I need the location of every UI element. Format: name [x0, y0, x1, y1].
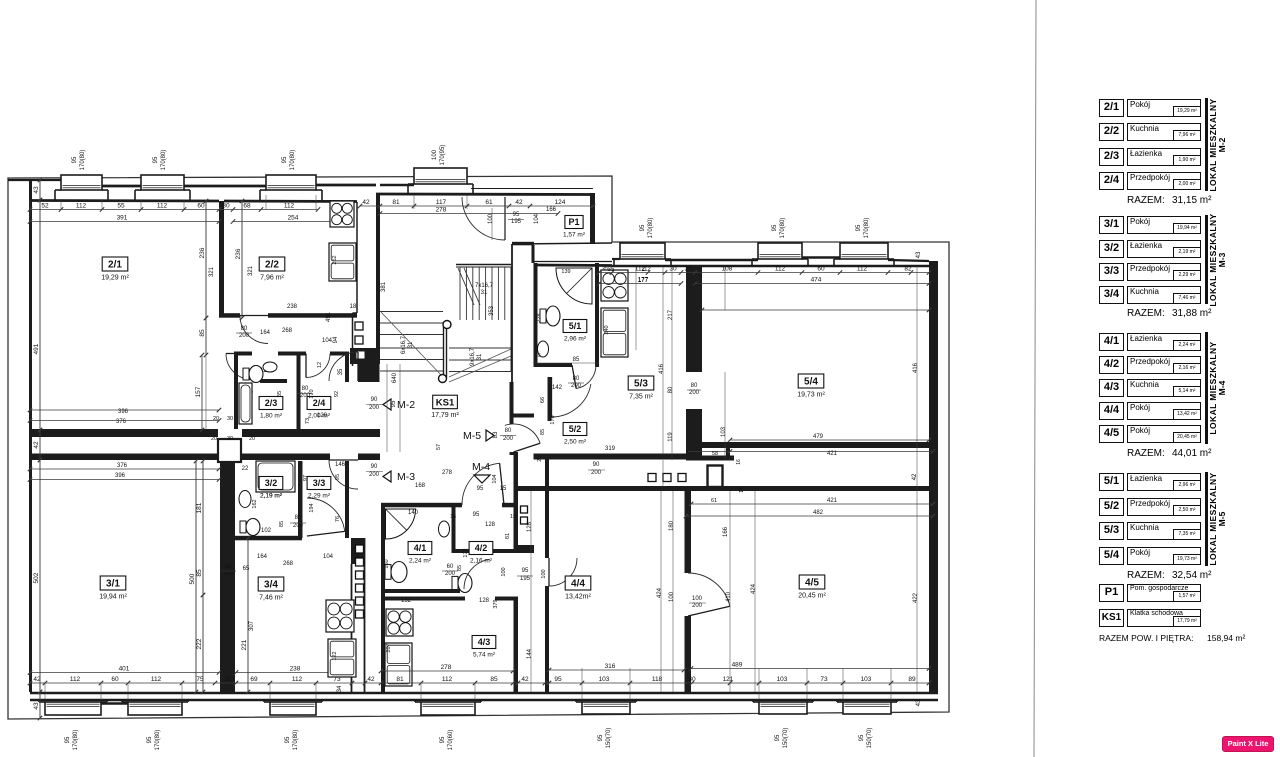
svg-text:58: 58 [712, 451, 718, 457]
extension lines 2/1 [60, 200, 62, 210]
svg-text:4/4: 4/4 [571, 579, 585, 590]
door M-3 entrance gap [330, 453, 358, 462]
svg-text:69: 69 [250, 676, 258, 683]
window 100/170(95) top-4 (staircase) [408, 168, 473, 193]
dim chain [597, 266, 931, 275]
svg-text:43: 43 [33, 186, 40, 194]
wall: bottom of kitchen 2/2 with door gap [219, 313, 240, 318]
svg-text:1,57 m²: 1,57 m² [563, 232, 586, 239]
svg-text:150(70): 150(70) [867, 728, 873, 749]
svg-text:200: 200 [689, 390, 700, 396]
chimney box at divider [218, 439, 241, 462]
dim chain [196, 593, 205, 694]
staircase lower flight right [449, 267, 511, 382]
wall: top exterior (left block) outer face [8, 179, 61, 181]
svg-text:120: 120 [317, 413, 328, 419]
door to bath 2/3 [226, 354, 252, 380]
svg-text:422: 422 [913, 592, 919, 603]
svg-text:424: 424 [751, 583, 757, 594]
svg-text:236: 236 [235, 248, 242, 259]
svg-text:60: 60 [447, 564, 454, 570]
svg-text:2,50 m²: 2,50 m² [564, 439, 587, 446]
svg-text:102: 102 [261, 528, 272, 534]
svg-text:104: 104 [492, 474, 498, 483]
svg-text:396: 396 [115, 473, 126, 479]
svg-text:43: 43 [33, 702, 40, 710]
svg-text:200: 200 [571, 383, 582, 389]
wall: top exterior right block inner [612, 265, 938, 268]
dims inside 5/4 [702, 309, 929, 311]
legend row 3/3 Przedpokój [1099, 263, 1124, 281]
dim chain [379, 664, 515, 673]
svg-text:112: 112 [76, 203, 87, 210]
svg-text:42: 42 [367, 676, 375, 683]
svg-text:95: 95 [554, 676, 562, 683]
annotation M-3 door [383, 471, 391, 482]
svg-text:20: 20 [213, 416, 219, 422]
svg-text:22: 22 [242, 466, 249, 472]
svg-text:95: 95 [598, 734, 604, 741]
svg-text:170(80): 170(80) [290, 150, 296, 171]
wall right of bath 5/1 [595, 263, 599, 367]
svg-text:45: 45 [535, 353, 541, 359]
wall bottom of bath 5/1 with door [534, 363, 573, 367]
svg-text:M-2: M-2 [397, 399, 415, 411]
svg-text:162: 162 [252, 499, 258, 508]
svg-text:170(80): 170(80) [73, 730, 79, 751]
room label 3/4 [258, 577, 284, 602]
room label 3/3 [307, 477, 331, 500]
svg-text:19,29 m²: 19,29 m² [101, 275, 129, 282]
svg-text:95: 95 [772, 224, 778, 231]
dim chain [33, 690, 42, 720]
svg-text:80: 80 [505, 428, 512, 434]
svg-text:103: 103 [777, 676, 788, 683]
svg-text:7,96 m²: 7,96 m² [260, 275, 284, 282]
svg-text:150(70): 150(70) [783, 728, 789, 749]
svg-text:164: 164 [257, 554, 268, 560]
legend total line [1099, 633, 1193, 643]
bath 5/1 sink [538, 341, 549, 357]
room label 4/3 [472, 636, 496, 659]
bath 3/2 toilet [240, 521, 246, 533]
svg-text:61: 61 [711, 498, 717, 504]
window 95/170(80) top-1 [55, 175, 108, 200]
svg-text:170(95): 170(95) [440, 145, 446, 166]
svg-text:177: 177 [638, 278, 649, 284]
svg-text:9x16,7: 9x16,7 [470, 347, 476, 366]
svg-text:55: 55 [117, 203, 125, 210]
svg-text:35: 35 [608, 267, 615, 273]
svg-text:85: 85 [196, 569, 203, 577]
svg-text:479: 479 [813, 434, 824, 440]
svg-text:80: 80 [225, 564, 232, 570]
svg-text:100: 100 [541, 569, 547, 578]
kitchen 2/2 sink unit [329, 243, 356, 281]
svg-text:95: 95 [285, 736, 291, 743]
svg-text:76: 76 [335, 516, 341, 522]
svg-text:207: 207 [386, 643, 392, 652]
svg-text:80: 80 [295, 515, 302, 521]
svg-text:170(60): 170(60) [448, 730, 454, 751]
svg-text:489: 489 [732, 662, 743, 669]
wall left of bath 2/3 [234, 353, 238, 431]
svg-text:122: 122 [332, 651, 338, 660]
wall right of 3/3 (hall nook) [345, 461, 349, 538]
legend row 5/4 Pokój [1099, 547, 1124, 565]
window 95/170(80) top-2 [135, 175, 190, 200]
svg-text:112: 112 [292, 676, 303, 683]
svg-text:4/5: 4/5 [805, 578, 819, 589]
svg-text:80: 80 [241, 326, 248, 332]
dim chain [28, 676, 931, 685]
room label 5/2 [563, 423, 587, 446]
svg-text:5,74 m²: 5,74 m² [473, 652, 496, 659]
dim chain [358, 199, 595, 208]
svg-text:81: 81 [505, 533, 511, 539]
vent squares shaft B [356, 545, 364, 553]
dim chain [33, 198, 42, 432]
svg-text:421: 421 [827, 451, 838, 457]
wall: top exterior right block outer [612, 258, 620, 260]
svg-text:3/4: 3/4 [264, 580, 278, 591]
extension lines bottom right [581, 668, 583, 683]
svg-text:4/1: 4/1 [414, 543, 427, 553]
svg-text:2,24 m²: 2,24 m² [409, 558, 432, 565]
wall right of kitchen 4/3 / corridor [514, 423, 519, 425]
bath 4/1 sink [439, 521, 450, 537]
kitchen 3/4 sink unit [328, 639, 356, 677]
svg-text:491: 491 [326, 311, 332, 322]
svg-text:240: 240 [604, 325, 610, 334]
svg-text:316: 316 [605, 663, 616, 670]
svg-text:2,19 m²: 2,19 m² [260, 493, 283, 500]
svg-text:2,29 m²: 2,29 m² [308, 493, 331, 500]
legend row 4/5 Pokój [1099, 425, 1124, 443]
wall: bottom of bath 4/1 [381, 589, 460, 593]
room label 4/5 [798, 575, 826, 600]
room label 2/1 [101, 257, 129, 282]
wall: top of M-4 wing [518, 486, 933, 491]
svg-text:95: 95 [440, 736, 446, 743]
shaft wall right of 2/2 [356, 202, 358, 313]
svg-text:73: 73 [305, 418, 311, 424]
kitchen 3/4 stove [326, 600, 354, 632]
dim chain [241, 536, 250, 694]
svg-text:252: 252 [332, 255, 338, 264]
wall between 3/2 and 3/3 [298, 461, 303, 538]
svg-text:7,46 m²: 7,46 m² [259, 595, 283, 602]
room label P1 [563, 216, 586, 239]
bath 2/3 basin [263, 362, 277, 372]
svg-text:20,45 m²: 20,45 m² [798, 593, 826, 600]
svg-text:166: 166 [546, 207, 557, 213]
svg-text:195: 195 [520, 576, 531, 582]
svg-text:112: 112 [857, 266, 868, 273]
svg-text:3/3: 3/3 [313, 478, 326, 488]
svg-text:5/2: 5/2 [569, 424, 582, 434]
room label 2/2 [259, 257, 285, 282]
legend bracket M-3 [1205, 215, 1208, 304]
svg-text:128: 128 [485, 522, 496, 528]
building outline (offset boundary) [8, 176, 949, 719]
dim chain [189, 459, 198, 694]
room label 4/2 [469, 542, 493, 565]
svg-text:95: 95 [856, 224, 862, 231]
wall between 5/3 and 5/4 [686, 266, 702, 372]
legend bracket M-2 [1205, 98, 1208, 191]
window 95/170(80) bottom-3 [264, 700, 322, 715]
wall between 4/1 and 4/2 [452, 505, 456, 553]
svg-text:60: 60 [817, 266, 825, 273]
door 5/1 [576, 365, 596, 389]
kitchen 5/3 stove [601, 270, 628, 301]
svg-text:25: 25 [537, 456, 543, 462]
svg-text:278: 278 [442, 470, 453, 476]
svg-text:85: 85 [199, 329, 206, 337]
svg-text:30: 30 [688, 676, 696, 683]
bath 2/3 toilet [243, 368, 249, 380]
svg-text:80: 80 [668, 386, 674, 393]
window 95/150(70) bottom-7 [837, 700, 897, 714]
svg-text:31: 31 [408, 341, 414, 348]
svg-text:103: 103 [721, 426, 727, 437]
svg-text:222: 222 [196, 638, 203, 649]
svg-text:103: 103 [599, 676, 610, 683]
svg-text:1,80 m²: 1,80 m² [260, 413, 283, 420]
svg-text:144: 144 [527, 648, 533, 659]
dims 3/1 top [30, 468, 219, 470]
svg-text:180: 180 [669, 520, 675, 531]
bath 4/1 toilet [385, 565, 391, 580]
svg-text:15: 15 [510, 514, 516, 520]
window 95/170(80) bottom-2 [122, 700, 188, 715]
legend row 2/3 Łazienka [1099, 148, 1124, 166]
wall between 2/3 and 2/4 [297, 353, 301, 431]
P1 bottom boundary [512, 243, 612, 244]
svg-text:172: 172 [463, 548, 469, 557]
svg-text:424: 424 [657, 587, 663, 598]
svg-text:104: 104 [322, 338, 333, 344]
svg-text:2/1: 2/1 [108, 260, 122, 271]
extension lines KS1 lobby [386, 364, 388, 452]
svg-text:94: 94 [333, 336, 339, 343]
staircase right boundary wall [511, 244, 513, 424]
svg-text:2/3: 2/3 [265, 398, 278, 408]
svg-text:80: 80 [302, 386, 309, 392]
dim chain [199, 199, 208, 320]
svg-text:34: 34 [337, 685, 343, 692]
svg-text:80: 80 [691, 383, 698, 389]
legend row P1 [1099, 584, 1124, 602]
svg-text:112: 112 [775, 266, 786, 273]
page fold line right [1034, 0, 1036, 757]
dim chain [231, 215, 354, 224]
svg-text:379: 379 [493, 599, 499, 608]
svg-text:5/3: 5/3 [634, 379, 648, 390]
staircase lower flight left [380, 312, 443, 378]
legend row 5/2 Przedpokój [1099, 498, 1124, 516]
svg-text:416: 416 [659, 363, 665, 374]
wall: bottom recess between windows 1-2 [101, 702, 128, 705]
svg-text:2,96 m²: 2,96 m² [564, 336, 587, 343]
kitchen 2/2 stove [330, 201, 354, 227]
svg-text:95: 95 [640, 224, 646, 231]
svg-text:83: 83 [493, 431, 499, 438]
svg-text:228: 228 [537, 313, 543, 322]
svg-text:108: 108 [722, 266, 733, 273]
svg-text:112: 112 [641, 267, 651, 273]
dim chain [196, 459, 205, 597]
room label KS1 [431, 395, 459, 419]
wall: top exterior KS1 block [380, 184, 414, 186]
extension lines bottom [44, 683, 46, 700]
window 95/170(80) top-6 [752, 243, 808, 266]
svg-text:502: 502 [33, 572, 40, 583]
extension lines right wing [635, 266, 637, 350]
svg-text:14: 14 [739, 487, 745, 493]
chimney box in gap [708, 466, 723, 488]
door 4/2 to 4/3 [464, 559, 490, 589]
svg-text:640: 640 [392, 372, 398, 383]
svg-text:195: 195 [511, 219, 522, 225]
svg-text:100: 100 [432, 149, 438, 160]
svg-text:194: 194 [309, 503, 315, 512]
door 5/2 [552, 384, 591, 417]
room label 4/1 [408, 542, 432, 565]
svg-text:85: 85 [457, 565, 463, 571]
svg-text:68: 68 [243, 203, 251, 210]
legend row KS1 [1099, 609, 1124, 627]
svg-text:416: 416 [913, 362, 919, 373]
svg-text:20: 20 [211, 436, 217, 442]
svg-text:P1: P1 [568, 217, 579, 227]
svg-text:170(80): 170(80) [780, 218, 786, 239]
svg-text:82: 82 [904, 266, 912, 273]
svg-text:100: 100 [692, 596, 703, 602]
svg-text:152: 152 [401, 598, 412, 604]
svg-text:85: 85 [277, 391, 283, 397]
door P1 to staircase [462, 197, 505, 240]
wall: apartment divider lower (north of M-3) [30, 454, 380, 461]
svg-text:5/4: 5/4 [804, 377, 818, 388]
svg-text:35: 35 [338, 368, 344, 375]
svg-text:30: 30 [224, 676, 232, 683]
svg-text:95: 95 [65, 736, 71, 743]
extension lines room interiors vertical [205, 201, 207, 430]
svg-text:170(80): 170(80) [293, 730, 299, 751]
dim chain [234, 666, 354, 675]
svg-text:238: 238 [290, 666, 301, 673]
svg-text:20: 20 [249, 436, 255, 442]
svg-text:30: 30 [227, 416, 233, 422]
door M-2 entrance [329, 352, 358, 381]
wall left of room 4/4 [545, 455, 549, 558]
staircase upper flight [456, 265, 511, 321]
svg-text:19,94 m²: 19,94 m² [99, 594, 127, 601]
wall below 5/2 (wing south west) [534, 454, 687, 460]
legend row 5/1 Łazienka [1099, 473, 1124, 491]
svg-text:100: 100 [501, 567, 507, 576]
svg-text:100: 100 [488, 213, 494, 224]
svg-text:85: 85 [540, 429, 546, 435]
wall between 4/4 and 4/5 [685, 491, 692, 573]
door M-5 apartment [505, 424, 540, 443]
legend row 3/4 Kuchnia [1099, 286, 1124, 304]
svg-text:104: 104 [534, 213, 540, 224]
legend row 2/2 Kuchnia [1099, 123, 1124, 141]
svg-text:391: 391 [117, 215, 128, 222]
svg-text:30: 30 [684, 266, 692, 273]
svg-text:170: 170 [309, 389, 315, 398]
svg-text:31: 31 [481, 290, 488, 296]
svg-text:410: 410 [726, 591, 732, 602]
svg-text:85: 85 [573, 357, 580, 363]
shaft wall right of kitchen 3/4 [351, 538, 365, 564]
wall: top of bath 5/1 and kitchen 5/3 [534, 264, 612, 267]
dim chain [235, 199, 244, 320]
svg-text:81: 81 [392, 199, 400, 206]
svg-text:170(80): 170(80) [648, 218, 654, 239]
svg-text:200: 200 [591, 470, 602, 476]
dim chain [33, 458, 42, 694]
vent squares row in gap [648, 474, 656, 482]
svg-text:150(70): 150(70) [606, 728, 612, 749]
svg-text:164: 164 [260, 330, 271, 336]
svg-text:2/2: 2/2 [265, 260, 279, 271]
room label 4/4 [565, 576, 591, 601]
wall: top of bath 2/3 and hall 2/4 [234, 352, 252, 356]
legend row 4/1 Łazienka [1099, 333, 1124, 351]
legend RAZEM M-4 [1127, 448, 1165, 459]
stair handrail [439, 321, 452, 383]
svg-text:95: 95 [513, 212, 520, 218]
svg-text:100: 100 [669, 591, 675, 602]
svg-text:112: 112 [70, 676, 81, 683]
svg-text:217: 217 [668, 309, 674, 320]
svg-text:95: 95 [147, 736, 153, 743]
door 4/4-4/5 [688, 573, 730, 606]
wall: top exterior (left block) inner face [30, 199, 219, 202]
corridor top wall to 5/1 [514, 414, 535, 418]
wall: bottom of baths 3/2 3/3 [235, 536, 302, 541]
room label 3/1 [99, 576, 127, 601]
legend bracket M-5 [1205, 472, 1208, 566]
svg-text:142: 142 [552, 385, 563, 391]
svg-text:200: 200 [369, 405, 380, 411]
svg-text:112: 112 [151, 676, 162, 683]
kitchen 4/3 stove [386, 609, 413, 636]
svg-text:146: 146 [335, 462, 346, 468]
svg-text:KS1: KS1 [436, 397, 455, 408]
svg-text:30: 30 [227, 436, 233, 442]
svg-text:43: 43 [916, 699, 922, 706]
wall stub in 5/2 [548, 377, 552, 421]
svg-text:5/1: 5/1 [569, 321, 582, 331]
svg-text:90: 90 [371, 464, 378, 470]
wall right of room 3/1 [220, 461, 235, 692]
svg-text:2,16 m²: 2,16 m² [470, 558, 493, 565]
window 95/170(80) top-5 [614, 243, 671, 266]
svg-text:160: 160 [384, 559, 390, 568]
wall left of 4/1 and 4/3 [381, 505, 385, 692]
corridor left wall upper [510, 382, 514, 424]
bath 5/1 shower [556, 268, 592, 304]
wall: bottom exterior [30, 692, 938, 695]
svg-text:474: 474 [811, 277, 822, 284]
svg-text:421: 421 [827, 498, 838, 504]
svg-text:104: 104 [323, 554, 334, 560]
